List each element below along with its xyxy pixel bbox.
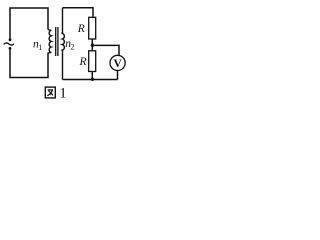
svg-text:2: 2 <box>71 43 75 52</box>
wire: R1 bottom to junction <box>91 39 93 51</box>
junction node dot (bottom rail) <box>91 78 94 81</box>
caption: character 图 (drawn) <box>45 87 55 98</box>
label R (top) <box>77 23 85 35</box>
voltmeter V <box>110 55 125 70</box>
svg-text:R: R <box>77 23 85 35</box>
label n1 <box>33 39 42 53</box>
wire: primary loop top <box>10 8 48 40</box>
junction node dot (between R1 and R2) <box>91 44 94 47</box>
AC source tilde <box>4 43 14 45</box>
label R (bottom) <box>79 56 87 68</box>
wire: R2 bottom to bottom rail <box>91 72 93 80</box>
AC source terminal dot (top) <box>9 38 12 41</box>
wire: voltmeter bottom lead <box>117 71 119 80</box>
caption: figure number 1 <box>59 86 66 102</box>
wire: primary loop bottom <box>10 49 48 78</box>
primary coil n1 <box>48 29 51 54</box>
wire: secondary top <box>63 8 94 17</box>
AC source terminal dot (bottom) <box>9 47 12 50</box>
svg-text:V: V <box>113 58 122 70</box>
resistor R2 (bottom) <box>89 51 96 72</box>
svg-text:1: 1 <box>38 43 42 52</box>
voltmeter V label <box>113 58 122 70</box>
resistor R1 (top) <box>89 17 96 39</box>
secondary coil n2 <box>62 8 64 80</box>
svg-text:R: R <box>79 56 87 68</box>
label n2 <box>65 38 74 52</box>
svg-text:1: 1 <box>59 86 66 102</box>
transformer core <box>56 27 58 56</box>
wire: junction to voltmeter top <box>92 45 119 55</box>
wire: secondary bottom rail <box>63 79 118 81</box>
